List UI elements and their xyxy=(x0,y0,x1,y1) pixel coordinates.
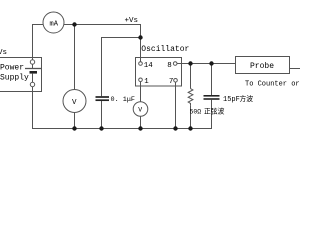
svg-text:1: 1 xyxy=(144,78,149,86)
node dot C1 bottom xyxy=(99,126,103,130)
terminal minus xyxy=(30,82,34,86)
svg-text:Vs: Vs xyxy=(0,49,7,57)
capacitor C2 15pF xyxy=(204,96,220,99)
svg-text:V: V xyxy=(72,99,77,107)
svg-text:50Ω: 50Ω xyxy=(190,109,202,116)
wire pin 1 to voltmeter V2 xyxy=(140,82,142,102)
wire supply top terminal to ammeter xyxy=(33,25,44,61)
wire pin 7 to ground rail xyxy=(175,82,177,128)
wire pin 8 output net to probe xyxy=(177,63,236,65)
svg-text:0. 1μF: 0. 1μF xyxy=(111,96,135,104)
svg-text:mA: mA xyxy=(50,21,59,29)
svg-text:7: 7 xyxy=(169,78,174,86)
pin 1 xyxy=(139,78,143,82)
oscillator box U1 xyxy=(136,58,182,87)
node dot pin 7 bottom xyxy=(173,126,177,130)
node dot R1 bottom xyxy=(188,126,192,130)
node dot C2 top xyxy=(209,61,213,65)
wire C2 to ground rail xyxy=(211,100,213,129)
battery B1 xyxy=(25,64,41,82)
ground rail wire xyxy=(32,128,212,130)
svg-text:正弦波: 正弦波 xyxy=(204,107,225,117)
svg-text:14: 14 xyxy=(144,62,154,70)
voltmeter V2 xyxy=(133,102,148,117)
svg-text:+Vs: +Vs xyxy=(125,17,139,25)
wire down to resistor R1 xyxy=(190,64,192,89)
pin 14 xyxy=(139,62,143,66)
svg-text:V: V xyxy=(138,107,142,114)
svg-text:Probe: Probe xyxy=(250,62,274,71)
node dot R1 top xyxy=(188,61,192,65)
svg-text:15pF: 15pF xyxy=(223,96,240,104)
svg-text:Power: Power xyxy=(0,64,24,73)
wire V1 to ground rail xyxy=(74,113,76,129)
wire supply bottom terminal to ground rail xyxy=(32,87,34,129)
node dot C1 branch xyxy=(138,35,142,39)
wire V2 to ground rail xyxy=(140,116,142,128)
voltmeter V1 xyxy=(63,90,86,113)
capacitor C1 0.1uF xyxy=(96,97,110,100)
svg-text:方波: 方波 xyxy=(240,94,254,104)
power supply box xyxy=(0,58,42,92)
svg-text:8: 8 xyxy=(167,62,172,70)
wire probe output xyxy=(290,68,301,70)
node dot V2 bottom xyxy=(138,126,142,130)
wire branch to 0.1uF capacitor xyxy=(102,38,141,97)
wire voltmeter V1 drop xyxy=(74,25,76,90)
probe box xyxy=(236,57,290,74)
terminal plus xyxy=(30,60,34,64)
pin 7 xyxy=(174,79,178,83)
pin 8 xyxy=(173,62,177,66)
svg-text:To Counter or: To Counter or xyxy=(245,81,300,89)
ammeter M1 xyxy=(43,12,64,33)
wire C1 to ground rail xyxy=(101,101,103,129)
resistor R1 zigzag xyxy=(188,89,193,106)
svg-text:Supply: Supply xyxy=(0,74,29,83)
node dot +Vs V1 tap xyxy=(72,22,76,26)
wire +Vs rail to pin 14 xyxy=(64,25,141,62)
wire R1 to ground rail xyxy=(190,105,192,128)
svg-text:Oscillator: Oscillator xyxy=(141,45,189,54)
node dot V1 bottom xyxy=(72,126,76,130)
wire down to capacitor C2 xyxy=(211,64,213,96)
